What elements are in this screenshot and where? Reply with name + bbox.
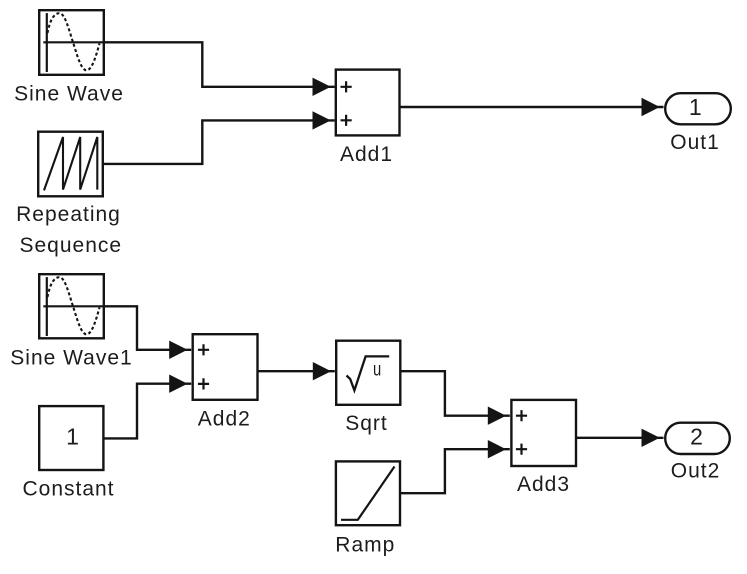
arrowhead into Add1 input 2 [313, 111, 331, 129]
wire Repeating Sequence to Add1 input 2 [104, 120, 335, 163]
svg-text:Constant: Constant [22, 478, 114, 501]
arrowhead into Out1 [642, 98, 660, 116]
block Ramp [336, 461, 400, 525]
sqrt radical [347, 356, 390, 390]
svg-text:Sqrt: Sqrt [345, 412, 388, 435]
svg-text:2: 2 [690, 424, 704, 450]
block Repeating Sequence [38, 132, 103, 197]
wire Ramp to Add3 input 2 [401, 449, 510, 493]
arrowhead into Add2 input 1 [169, 341, 187, 359]
svg-text:Add1: Add1 [340, 143, 393, 166]
arrowhead into Out2 [642, 429, 660, 447]
outport Out1 [665, 93, 731, 124]
block Add3 (sum) [511, 400, 576, 466]
svg-text:Out1: Out1 [670, 131, 720, 154]
svg-text:Ramp: Ramp [335, 534, 395, 557]
arrowhead into Sqrt [313, 362, 331, 380]
svg-text:u: u [373, 360, 382, 381]
svg-text:Sequence: Sequence [20, 234, 123, 257]
wire Constant to Add2 input 2 [104, 384, 191, 439]
svg-text:Out2: Out2 [671, 460, 721, 483]
wire Add1 to Out1 [400, 106, 664, 108]
svg-text:Sine Wave: Sine Wave [14, 83, 124, 106]
arrowhead into Add1 input 1 [313, 78, 331, 96]
svg-text:Repeating: Repeating [16, 203, 121, 226]
svg-text:Sine Wave1: Sine Wave1 [10, 346, 132, 369]
wire Sine Wave1 to Add2 input 1 [104, 306, 191, 350]
svg-text:1: 1 [66, 423, 80, 449]
svg-text:1: 1 [689, 94, 703, 120]
block Sine Wave [39, 10, 104, 75]
block Constant [39, 406, 103, 470]
block Add1 (sum) [336, 70, 400, 136]
arrowhead into Add3 input 1 [488, 407, 506, 425]
block Sine Wave1 [39, 274, 104, 338]
wire Sine Wave to Add1 input 1 [104, 42, 335, 87]
wire Add2 to Sqrt [258, 370, 335, 372]
arrowhead into Add2 input 2 [169, 375, 187, 393]
block Add2 (sum) [193, 334, 258, 400]
wire Sqrt to Add3 input 1 [401, 371, 510, 416]
block Sqrt [336, 341, 400, 405]
wire Add3 to Out2 [576, 437, 664, 439]
svg-text:Add3: Add3 [517, 473, 570, 496]
outport Out2 [665, 423, 730, 454]
arrowhead into Add3 input 2 [488, 440, 506, 458]
svg-text:Add2: Add2 [198, 408, 251, 431]
